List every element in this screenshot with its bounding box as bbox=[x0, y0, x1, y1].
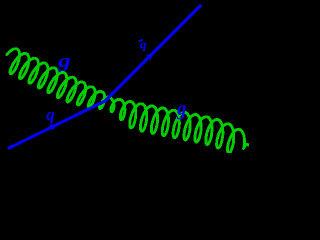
arrow on outgoing antiquark bbox=[146, 52, 154, 60]
Feynman diagram: quark, antiquark and two gluons bbox=[0, 0, 249, 153]
gluon g (upper left coil) bbox=[7, 49, 105, 109]
antiquark line qbar (outgoing to top right) bbox=[105, 5, 201, 101]
arrow on incoming quark bbox=[49, 124, 58, 131]
quark line q (incoming from bottom left) bbox=[8, 101, 105, 149]
svg-text:g: g bbox=[176, 98, 186, 120]
gluon g (lower right coil) bbox=[103, 97, 249, 153]
svg-text:g: g bbox=[57, 50, 71, 71]
svg-text:q: q bbox=[46, 105, 55, 124]
macron over qbar bbox=[139, 40, 143, 42]
svg-text:q: q bbox=[140, 36, 147, 51]
